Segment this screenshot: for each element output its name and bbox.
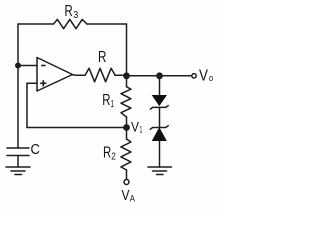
wire diode branch top <box>159 76 161 96</box>
resistor R1 <box>121 87 131 117</box>
svg-text:V: V <box>199 68 208 85</box>
svg-text:3: 3 <box>73 9 78 21</box>
zener diode D1 <box>150 96 168 110</box>
wire R to node A <box>115 74 127 76</box>
wire R1 bottom lead <box>126 117 128 128</box>
wire top-right segment <box>87 23 127 25</box>
wire inverting input <box>18 65 37 67</box>
svg-text:1: 1 <box>140 125 143 135</box>
resistor R <box>85 68 115 82</box>
svg-text:V: V <box>131 120 139 135</box>
svg-text:o: o <box>209 73 213 83</box>
wire top-left segment <box>18 23 53 25</box>
wire right vertical from R3 to node A <box>126 24 128 76</box>
wire feedback horizontal <box>27 127 127 129</box>
wire non-inverting input <box>27 82 37 84</box>
wire between diodes <box>159 108 161 128</box>
svg-text:R: R <box>102 92 110 109</box>
svg-text:C: C <box>31 141 41 158</box>
wire R1 top lead <box>126 76 128 87</box>
op-amp plus sign <box>40 80 46 86</box>
node V1 <box>123 124 130 131</box>
svg-text:A: A <box>130 193 136 204</box>
node A <box>123 72 130 79</box>
wire op-amp output <box>73 74 86 77</box>
capacitor C <box>7 148 29 167</box>
wire left vertical <box>17 24 19 148</box>
zener diode D2 <box>150 126 168 141</box>
terminal VA <box>124 180 129 185</box>
resistor R2 <box>121 139 131 170</box>
wire R2 bottom lead <box>126 170 128 179</box>
wire diode branch bottom <box>159 141 161 168</box>
terminal Vo <box>192 74 196 78</box>
resistor R3 <box>54 19 88 28</box>
svg-text:1: 1 <box>111 98 114 110</box>
op-amp minus sign <box>41 65 45 67</box>
wire R2 top lead <box>126 128 128 140</box>
svg-text:R: R <box>65 3 73 20</box>
wire feedback vertical <box>26 83 28 127</box>
op-amp U1 <box>37 58 73 92</box>
svg-text:R: R <box>103 145 111 162</box>
node at inverting input <box>15 63 21 69</box>
svg-text:V: V <box>122 188 130 204</box>
wire output line to Vo <box>127 75 192 77</box>
svg-text:R: R <box>98 49 106 66</box>
node B <box>156 72 163 79</box>
svg-text:2: 2 <box>111 151 116 163</box>
ground (under diodes) <box>148 167 172 175</box>
ground (under C) <box>6 167 30 175</box>
